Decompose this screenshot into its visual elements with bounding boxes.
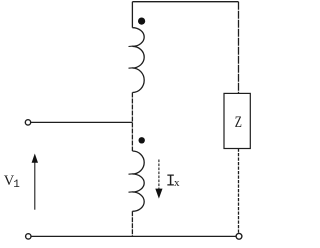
svg-text:1: 1 (13, 179, 20, 191)
arrowhead Ix down (155, 189, 162, 199)
wire bottom horizontal (31, 235, 236, 237)
wire right vertical lower (238, 149, 240, 234)
arrow V1 shaft (34, 162, 36, 210)
node circle bottom-right (236, 233, 242, 239)
wire right vertical upper (238, 2, 240, 94)
terminal circle top-left (25, 120, 30, 125)
impedance Z box (224, 93, 250, 148)
polarity dot upper (138, 18, 145, 25)
wire center vertical bottom (131, 211, 133, 236)
wire top horizontal (132, 1, 238, 3)
L1 cusp tick 1 (129, 45, 134, 47)
wire tap horizontal (31, 121, 133, 123)
svg-text:x: x (174, 177, 180, 189)
polarity dot lower (139, 137, 145, 143)
inductor L1 upper winding (132, 28, 144, 93)
arrow Ix shaft (158, 160, 160, 190)
wire center vertical top (131, 2, 133, 28)
svg-text:Z: Z (235, 112, 242, 131)
wire center vertical middle (131, 93, 133, 152)
inductor L2 lower winding (132, 151, 144, 211)
L1 cusp tick 2 (129, 67, 134, 69)
arrowhead V1 up (32, 154, 38, 163)
L2 cusp tick 1 (129, 173, 134, 175)
L2 cusp tick 2 (129, 191, 134, 193)
terminal circle bottom-left (26, 234, 31, 239)
